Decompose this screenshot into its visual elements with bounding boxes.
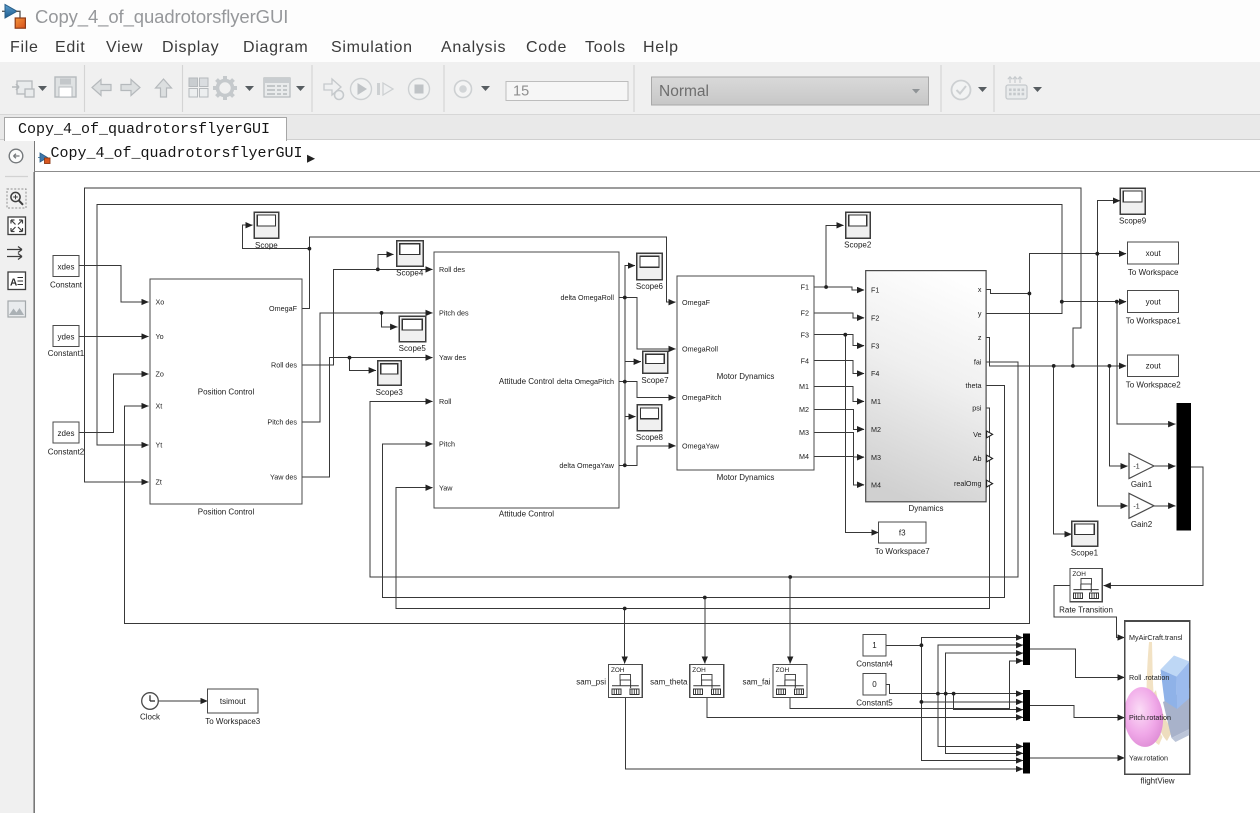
svg-text:theta: theta [966,381,982,390]
svg-text:Gain2: Gain2 [1131,520,1153,529]
svg-text:Scope9: Scope9 [1119,217,1147,226]
svg-text:zout: zout [1146,362,1162,371]
svg-text:F4: F4 [801,356,809,365]
svg-text:MyAirCraft.transl: MyAirCraft.transl [1129,633,1183,642]
svg-text:-1: -1 [1133,464,1139,471]
svg-text:M4: M4 [871,480,881,489]
svg-text:xdes: xdes [58,263,75,272]
svg-text:Constant1: Constant1 [48,349,85,358]
svg-text:Yt: Yt [156,441,163,450]
svg-text:F2: F2 [801,309,809,318]
svg-text:Scope4: Scope4 [396,269,424,278]
svg-text:To Workspace3: To Workspace3 [205,717,261,726]
svg-text:F3: F3 [871,341,879,350]
svg-text:M2: M2 [871,425,881,434]
svg-text:M3: M3 [799,428,809,437]
svg-text:Scope7: Scope7 [641,376,669,385]
svg-text:F3: F3 [801,330,809,339]
svg-text:Yaw: Yaw [439,483,453,492]
svg-text:sam_theta: sam_theta [650,678,688,687]
svg-text:Pitch des: Pitch des [439,309,469,318]
svg-text:fai: fai [974,357,982,366]
svg-text:y: y [978,309,982,318]
svg-text:Scope: Scope [255,241,278,250]
svg-text:OmegaF: OmegaF [682,298,711,307]
svg-text:F1: F1 [801,283,809,292]
svg-text:Scope8: Scope8 [636,433,664,442]
svg-text:sam_fai: sam_fai [742,678,770,687]
svg-text:yout: yout [1146,297,1162,306]
svg-text:x: x [978,285,982,294]
svg-text:Position Control: Position Control [198,388,255,397]
svg-text:z: z [978,333,982,342]
svg-text:M2: M2 [799,405,809,414]
svg-text:Pitch: Pitch [439,440,455,449]
svg-text:Yaw.rotation: Yaw.rotation [1129,754,1168,763]
svg-text:ZOH: ZOH [776,667,790,674]
svg-text:Dynamics: Dynamics [908,504,943,513]
svg-text:Motor Dynamics: Motor Dynamics [717,372,775,381]
svg-text:Position Control: Position Control [198,508,255,517]
svg-text:Constant5: Constant5 [856,699,893,708]
svg-text:Roll des: Roll des [439,265,465,274]
svg-text:M4: M4 [799,452,809,461]
svg-text:Scope6: Scope6 [636,282,664,291]
svg-text:f3: f3 [899,528,906,537]
svg-text:Scope5: Scope5 [399,344,427,353]
svg-text:delta OmegaRoll: delta OmegaRoll [560,293,614,302]
svg-text:15: 15 [513,84,529,100]
svg-text:Attitude Control: Attitude Control [499,377,554,386]
svg-text:delta OmegaYaw: delta OmegaYaw [559,461,614,470]
svg-text:To Workspace1: To Workspace1 [1126,317,1182,326]
svg-text:OmegaF: OmegaF [269,304,298,313]
svg-text:Xt: Xt [156,402,163,411]
svg-text:Gain1: Gain1 [1131,480,1153,489]
svg-text:ZOH: ZOH [692,667,706,674]
svg-text:Yaw des: Yaw des [270,472,297,481]
svg-text:Rate Transition: Rate Transition [1059,606,1113,615]
svg-text:-1: -1 [1133,503,1139,510]
svg-text:M1: M1 [799,382,809,391]
svg-text:M1: M1 [871,397,881,406]
svg-text:Attitude Control: Attitude Control [499,510,554,519]
svg-text:Pitch des: Pitch des [267,418,297,427]
svg-text:sam_psi: sam_psi [576,678,606,687]
svg-text:To Workspace: To Workspace [1128,268,1179,277]
svg-text:Yo: Yo [156,332,164,341]
svg-text:Yaw des: Yaw des [439,353,466,362]
svg-text:Scope2: Scope2 [844,241,872,250]
svg-text:Xo: Xo [156,298,165,307]
svg-text:F2: F2 [871,313,879,322]
svg-text:Constant4: Constant4 [856,660,893,669]
svg-text:realOmg: realOmg [954,479,982,488]
svg-text:F1: F1 [871,286,879,295]
svg-text:Constant2: Constant2 [48,448,85,457]
svg-text:tsimout: tsimout [220,697,247,706]
svg-text:Ab: Ab [973,454,982,463]
svg-text:To Workspace2: To Workspace2 [1126,381,1182,390]
svg-text:To Workspace7: To Workspace7 [875,547,931,556]
svg-text:M3: M3 [871,453,881,462]
svg-text:psi: psi [972,403,982,412]
svg-text:ZOH: ZOH [611,667,625,674]
svg-text:Zt: Zt [156,478,162,487]
svg-text:Scope1: Scope1 [1071,549,1099,558]
svg-text:Constant: Constant [50,281,83,290]
svg-text:Roll: Roll [439,397,452,406]
svg-text:OmegaYaw: OmegaYaw [682,441,720,450]
svg-text:F4: F4 [871,369,879,378]
svg-text:Clock: Clock [140,713,161,722]
svg-text:delta OmegaPitch: delta OmegaPitch [557,377,614,386]
svg-text:ydes: ydes [58,333,75,342]
svg-text:OmegaRoll: OmegaRoll [682,345,718,354]
svg-text:zdes: zdes [58,429,75,438]
svg-text:Pitch.rotation: Pitch.rotation [1129,713,1171,722]
svg-text:1: 1 [872,641,877,650]
svg-text:Roll des: Roll des [271,361,297,370]
svg-text:A: A [10,278,17,289]
svg-text:Normal: Normal [659,83,709,100]
svg-text:Scope3: Scope3 [376,388,404,397]
svg-text:ZOH: ZOH [1072,571,1086,578]
svg-text:Roll .rotation: Roll .rotation [1129,673,1169,682]
svg-text:Ve: Ve [973,430,981,439]
svg-text:▶: ▶ [307,153,316,165]
svg-text:Motor Dynamics: Motor Dynamics [717,473,775,482]
svg-text:OmegaPitch: OmegaPitch [682,393,722,402]
svg-text:Zo: Zo [156,370,164,379]
svg-text:xout: xout [1146,249,1162,258]
svg-text:flightView: flightView [1140,777,1174,786]
svg-text:0: 0 [872,680,877,689]
